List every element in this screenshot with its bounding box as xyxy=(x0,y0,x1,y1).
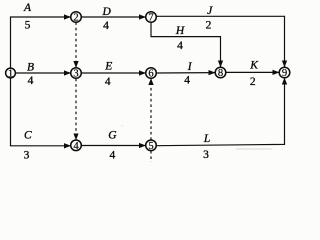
svg-text:J: J xyxy=(207,5,213,17)
svg-text:4: 4 xyxy=(73,141,79,152)
wire I from node 6 to node 8 xyxy=(156,72,215,74)
wire H elbow from node 7 down-right to node 8 top xyxy=(151,22,221,67)
svg-text:E: E xyxy=(104,61,112,73)
node 2 xyxy=(71,12,82,23)
dummy arrow node 2 to node 3 (dashed) xyxy=(75,22,77,67)
svg-text:3: 3 xyxy=(24,150,30,162)
svg-text:5: 5 xyxy=(25,19,31,31)
node 3 xyxy=(71,68,82,79)
svg-text:6: 6 xyxy=(148,69,153,80)
svg-text:I: I xyxy=(187,61,193,73)
svg-text:C: C xyxy=(24,129,32,141)
svg-text:A: A xyxy=(23,2,32,14)
scan speck xyxy=(121,125,123,127)
svg-text:2: 2 xyxy=(206,19,212,31)
node 8 xyxy=(215,67,226,78)
node 6 xyxy=(146,68,157,79)
svg-text:4: 4 xyxy=(103,20,109,32)
svg-text:H: H xyxy=(175,25,185,37)
svg-text:L: L xyxy=(203,133,210,145)
node 5 xyxy=(146,140,157,151)
svg-text:3: 3 xyxy=(73,69,78,80)
dashed stub below node 5 xyxy=(150,151,152,162)
wire G from node 4 to node 5 xyxy=(81,145,145,147)
svg-text:3: 3 xyxy=(203,149,209,161)
svg-text:1: 1 xyxy=(8,69,13,80)
node 9 xyxy=(279,67,290,78)
dummy arrow node 5 to node 6 (dashed) xyxy=(150,79,152,140)
svg-text:K: K xyxy=(249,60,259,72)
wire B from node 1 to node 3 xyxy=(15,72,70,74)
svg-text:7: 7 xyxy=(148,13,153,24)
node 4 xyxy=(71,140,82,151)
svg-text:2: 2 xyxy=(250,76,256,88)
wire C elbow from node 1 down and right to node 4 xyxy=(11,78,71,146)
wire L elbow from node 5 right then up to node 9 bottom xyxy=(156,78,285,145)
node 1 xyxy=(6,68,16,78)
svg-text:G: G xyxy=(108,129,117,141)
svg-text:5: 5 xyxy=(148,141,153,152)
svg-text:4: 4 xyxy=(105,76,111,88)
svg-text:8: 8 xyxy=(218,68,223,79)
wire E from node 3 to node 6 xyxy=(81,72,145,74)
svg-text:B: B xyxy=(27,61,34,73)
svg-text:2: 2 xyxy=(73,13,78,24)
wire D from node 2 to node 7 xyxy=(81,16,145,18)
wire J elbow from node 7 right then down to node 9 top xyxy=(156,16,285,66)
svg-text:D: D xyxy=(101,6,111,18)
svg-text:4: 4 xyxy=(110,150,116,162)
wire K from node 8 to node 9 xyxy=(226,71,279,73)
dummy arrow node 3 to node 4 (dashed) xyxy=(75,79,77,140)
scan shadow artifact under L line xyxy=(236,148,272,150)
node 7 xyxy=(146,12,157,23)
svg-text:4: 4 xyxy=(28,75,34,87)
svg-text:9: 9 xyxy=(282,68,287,79)
wire A elbow from node 1 up and right to node 2 xyxy=(11,17,71,69)
svg-text:4: 4 xyxy=(184,75,190,87)
svg-text:4: 4 xyxy=(177,40,183,52)
